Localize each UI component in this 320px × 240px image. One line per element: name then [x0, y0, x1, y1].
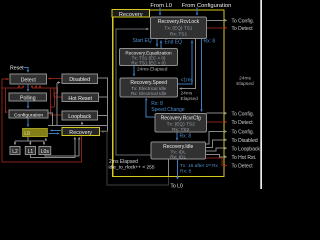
- svg-text:Tx: (EQ) TS2: Tx: (EQ) TS2: [167, 122, 195, 128]
- state Detect: [10, 74, 47, 84]
- svg-text:To Detect: To Detect: [232, 164, 254, 170]
- wire gray L0s up into L0: [45, 139, 47, 142]
- wire Speed to RcvLock lt1ms: [178, 41, 193, 84]
- recovery container box: [113, 10, 224, 177]
- svg-text:Tx: 16 after 1st Rx: Tx: 16 after 1st Rx: [180, 163, 219, 169]
- svg-text:Hot Reset: Hot Reset: [68, 96, 92, 102]
- wire gray L0 down stub: [15, 137, 44, 142]
- wire From Configuration down: [196, 8, 198, 16]
- svg-text:To Disabled: To Disabled: [232, 138, 258, 144]
- wire red HotReset to bus: [54, 88, 62, 97]
- window edge highlight: [260, 0, 262, 189]
- state Configuration: [9, 110, 48, 118]
- wire Idle gray stub down: [168, 160, 170, 177]
- svg-text:End EQ: End EQ: [165, 40, 183, 46]
- wire Idle loop to RcvLock: [116, 29, 151, 155]
- state Polling: [9, 93, 47, 102]
- svg-text:From Configuration: From Configuration: [182, 3, 232, 9]
- state L0: [23, 129, 48, 138]
- state Recovery left: [62, 128, 100, 137]
- wire red arrow into Detect left: [4, 78, 8, 80]
- wire gray bus right of second column: [98, 78, 108, 132]
- wire red Disabled to Detect: [49, 78, 63, 80]
- wire red riser to Detect x32: [31, 86, 33, 89]
- wire blue Config to L0: [27, 118, 29, 127]
- svg-text:24ms Elapsed: 24ms Elapsed: [137, 67, 168, 73]
- svg-text:Reset: Reset: [10, 66, 24, 72]
- svg-text:Recovery.RcvLock: Recovery.RcvLock: [158, 19, 200, 25]
- wire Idle To Disabled: [206, 140, 227, 148]
- svg-text:To Detect: To Detect: [232, 120, 254, 126]
- svg-text:Recovery.Equalization: Recovery.Equalization: [125, 50, 172, 55]
- state Recovery.Idle: [151, 142, 206, 161]
- svg-text:L1: L1: [28, 149, 34, 155]
- svg-text:Rx: TS1: Rx: TS1: [170, 32, 188, 38]
- svg-text:Recovery.Idle: Recovery.Idle: [163, 144, 193, 150]
- svg-text:Polling: Polling: [20, 96, 36, 102]
- wire blue Recovery to L0: [51, 130, 62, 132]
- wire red bus under Detect right: [32, 87, 54, 89]
- svg-text:idle_to_rlock++ < 255: idle_to_rlock++ < 255: [109, 165, 155, 171]
- svg-text:Rx: TS2: Rx: TS2: [172, 127, 190, 133]
- wire Idle to L0 blue: [177, 159, 179, 179]
- state Disabled: [62, 74, 98, 84]
- wire RcvLock to Speed 24ms: [180, 39, 196, 89]
- svg-text:Recovery: Recovery: [119, 12, 143, 18]
- wire Start EQ: [156, 39, 158, 47]
- svg-text:Rx: 8: Rx: 8: [180, 133, 192, 139]
- wire Idle To Hot Rst: [206, 155, 227, 157]
- svg-text:Tx: (EQ) TS1: Tx: (EQ) TS1: [164, 26, 192, 32]
- wire End EQ: [160, 41, 162, 49]
- wire Idle To Config: [206, 132, 227, 145]
- state L2: [10, 147, 20, 155]
- wire gray arrow into L1: [29, 141, 31, 145]
- svg-text:To Config.: To Config.: [232, 130, 255, 136]
- state Recovery.RcvLock: [151, 17, 207, 39]
- recovery tab: [112, 10, 150, 18]
- wire RcvLock To Detect: [207, 27, 227, 29]
- svg-text:Tx: Electrical Idle: Tx: Electrical Idle: [131, 86, 166, 91]
- svg-text:To Config.: To Config.: [232, 19, 255, 25]
- wire blue Detect to Polling: [27, 84, 29, 91]
- svg-text:To Detect: To Detect: [232, 26, 254, 32]
- svg-text:Rx: 8: Rx: 8: [204, 39, 216, 45]
- svg-text:2ms Elapsed: 2ms Elapsed: [109, 159, 138, 165]
- state Recovery.Speed: [120, 78, 178, 97]
- wire blue Reset to Detect: [24, 68, 29, 73]
- wire Idle To Loopback: [206, 148, 227, 151]
- svg-text:Loopback: Loopback: [68, 114, 91, 120]
- wire red Loopback to bus: [51, 88, 63, 115]
- svg-text:Recovery: Recovery: [69, 130, 92, 136]
- wire gray Config elbow to bus: [48, 113, 53, 125]
- wire red squiggle right of polling: [54, 88, 58, 107]
- wire RcvrCfg To Config: [207, 112, 227, 114]
- svg-text:To Hot Rst.: To Hot Rst.: [232, 155, 257, 161]
- wire Eq to Speed: [133, 66, 135, 76]
- svg-text:Detect: Detect: [21, 78, 37, 84]
- wire gray arrow into L0s: [43, 141, 45, 145]
- svg-text:Elapsed: Elapsed: [181, 96, 199, 102]
- svg-text:Disabled: Disabled: [69, 77, 90, 83]
- wire red jog at polling level: [51, 106, 55, 108]
- svg-text:<1ms: <1ms: [181, 78, 194, 84]
- svg-text:Recovery.RcvrCfg: Recovery.RcvrCfg: [161, 116, 201, 122]
- svg-text:Rx: Electrical Idle: Rx: Electrical Idle: [131, 91, 167, 96]
- wire blue L0 to Recovery: [48, 133, 59, 135]
- wire dark loop Recovery right to To L0 area: [100, 131, 169, 185]
- svg-text:Rx: IDL: Rx: IDL: [170, 155, 186, 161]
- svg-text:Rx: TS1 (EC > 0): Rx: TS1 (EC > 0): [131, 61, 166, 66]
- wire blue Polling to Config: [27, 101, 29, 108]
- svg-text:24ms: 24ms: [239, 76, 251, 82]
- wire RcvrCfg To Detect: [207, 121, 227, 123]
- wire From L0 down: [159, 8, 161, 16]
- wire red riser to Detect x40: [39, 86, 41, 89]
- wire gray arrow into Disabled left: [57, 82, 60, 84]
- wire gray HotReset stub to bus: [99, 96, 108, 98]
- svg-text:To Config.: To Config.: [232, 111, 255, 117]
- wire red riser to Detect x19: [18, 86, 20, 89]
- wire red Config entry from left rail: [6, 88, 8, 112]
- svg-text:To Loopback: To Loopback: [232, 146, 261, 152]
- svg-text:To L0: To L0: [171, 183, 183, 189]
- state Hot Reset: [62, 93, 99, 102]
- state L0s: [39, 147, 51, 155]
- wire Recovery to Detect red outer loop: [2, 79, 82, 162]
- svg-text:Configuration: Configuration: [14, 112, 43, 118]
- state Recovery.Equalization: [120, 49, 178, 66]
- wire RcvLock To Config: [207, 19, 227, 21]
- wire Idle To Detect red: [206, 158, 227, 166]
- state Loopback: [62, 111, 98, 120]
- wire gray Detect-Disabled bus: [56, 83, 58, 125]
- wire gray L1 loop to Recovery: [30, 138, 75, 158]
- wire red bus under Detect left: [2, 87, 23, 89]
- wire red riser to Detect x36: [35, 86, 37, 89]
- state Recovery.RcvrCfg: [155, 114, 207, 133]
- wire gray arrow into L2: [14, 141, 16, 145]
- svg-text:From L0: From L0: [150, 3, 172, 9]
- svg-text:Rx: 8: Rx: 8: [180, 169, 192, 175]
- wire gray Loopback stub to bus: [98, 115, 108, 117]
- svg-text:24ms: 24ms: [181, 91, 193, 97]
- wire RcvrCfg to Idle: [176, 132, 178, 140]
- svg-text:Speed Change: Speed Change: [151, 107, 185, 113]
- svg-text:Start EQ: Start EQ: [133, 38, 152, 44]
- wire RcvLock to RcvrCfg Rx8: [201, 39, 203, 112]
- svg-text:L0: L0: [24, 131, 30, 137]
- svg-text:L0s: L0s: [41, 149, 50, 155]
- wire red riser to Detect x23: [22, 86, 24, 89]
- svg-text:Elapsed: Elapsed: [236, 81, 254, 87]
- state L1: [25, 147, 35, 155]
- wire gray arrow up into Loopback bottom: [81, 122, 83, 125]
- svg-text:L2: L2: [12, 149, 18, 155]
- wire gray L0s loop to Recovery: [45, 138, 79, 157]
- wire RcvrCfg to Speed: [146, 98, 155, 117]
- wire gray horizontal under Loopback: [48, 124, 108, 126]
